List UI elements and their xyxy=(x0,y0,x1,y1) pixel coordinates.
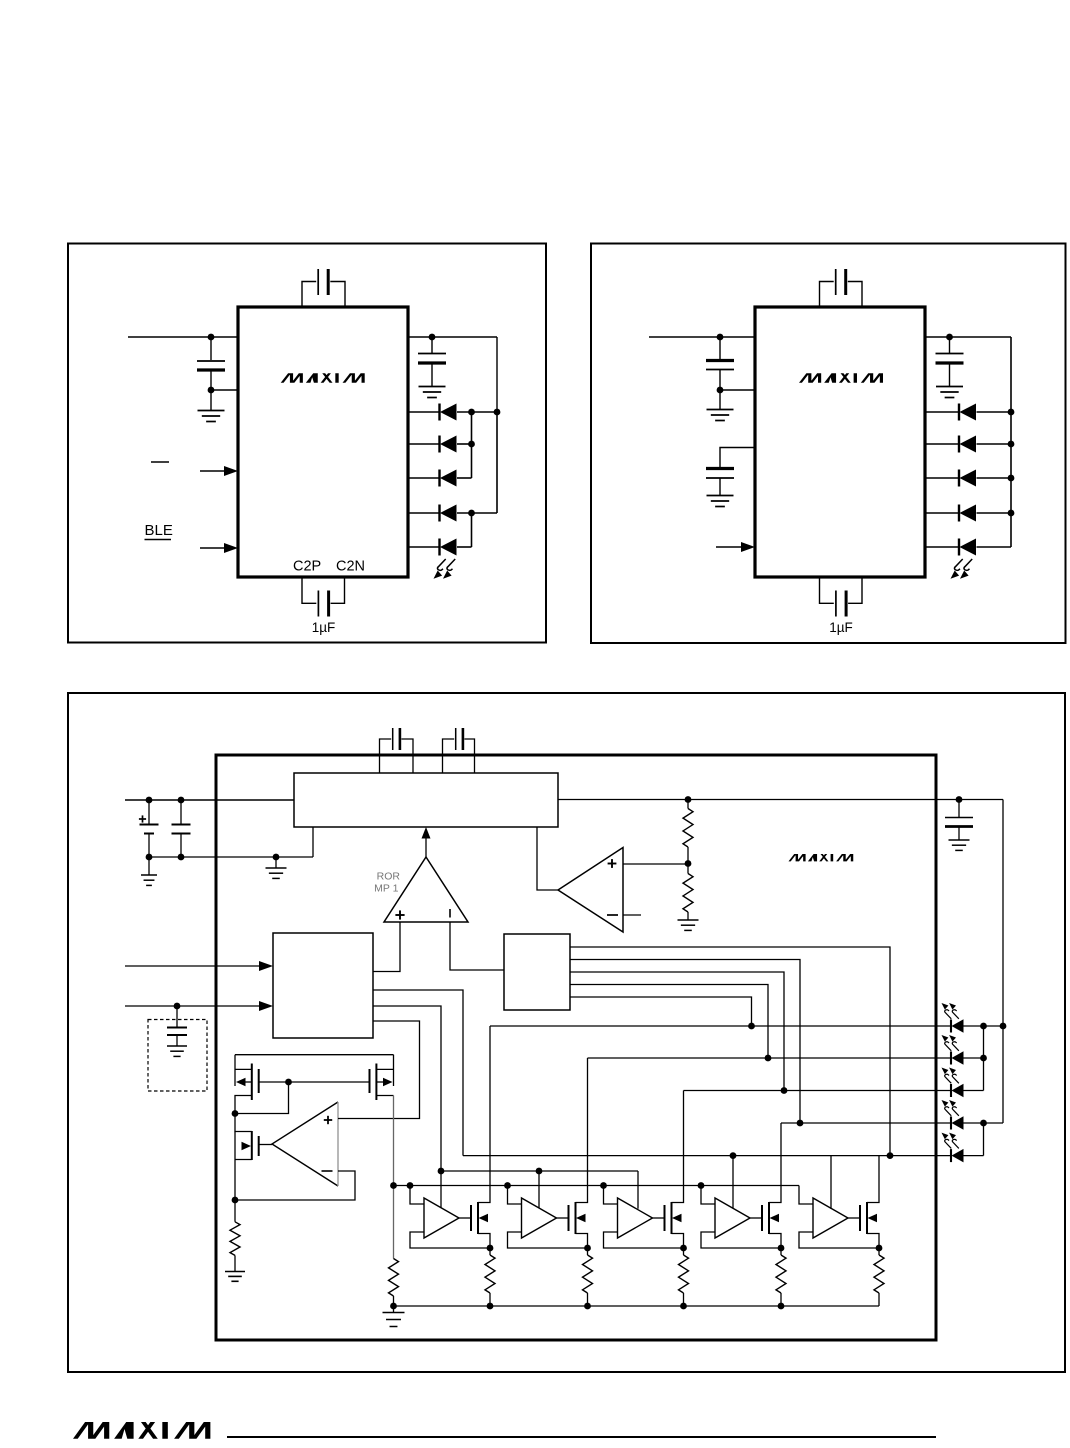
wire logic output to enable line (fig3) xyxy=(373,1006,441,1171)
node source junction cell 3 xyxy=(680,1245,687,1252)
LED D1 (fig1) xyxy=(408,411,440,413)
op-amp error amp 2 (fig3) xyxy=(272,1102,338,1186)
wire drain cell 1 xyxy=(478,1026,490,1203)
ground output cap (fig3) xyxy=(949,840,970,850)
ground input caps (fig3) xyxy=(148,857,150,875)
wire erroramp minus input to DAC (fig3) xyxy=(450,922,504,970)
node source junction cell 5 xyxy=(876,1245,883,1252)
wire source cell 2 xyxy=(576,1234,588,1249)
ground bypass cap (fig3) xyxy=(167,1046,187,1056)
wire IN rail (fig3) xyxy=(125,799,294,801)
LED D4 (fig1) xyxy=(408,512,440,514)
capacitor C8 output (fig2) xyxy=(949,337,951,353)
wire amp2 plus input from logic xyxy=(338,1021,420,1119)
wire LED parallel bus upper (fig1) xyxy=(471,412,473,478)
ground output cap (fig2) xyxy=(936,387,963,398)
node mirror drain junction xyxy=(232,1110,239,1117)
capacitor C4 1uF transfer cap (fig1) xyxy=(302,577,316,603)
wire enable input arrow (fig2) xyxy=(716,546,744,548)
node divider junction xyxy=(685,796,692,803)
transistor Q1 (mirror left) xyxy=(251,1064,253,1101)
node source junction cell 2 xyxy=(584,1245,591,1252)
LED D5 (fig1) xyxy=(408,546,440,548)
svg-text:C2P: C2P xyxy=(293,559,321,575)
wire drain cell 5 xyxy=(867,1156,879,1203)
LED D10 (fig2) xyxy=(925,546,959,548)
capacitor C7 ref bypass (fig2) xyxy=(720,448,755,469)
resistor R7 (cell 3) xyxy=(683,1248,685,1255)
LED D2 (fig1) xyxy=(408,443,440,445)
LED light emission arrows (fig1) xyxy=(434,559,446,579)
svg-text:BLE: BLE xyxy=(145,522,173,539)
dashed optional box (fig3) xyxy=(148,1020,207,1092)
transistor Q6 (cell 3) xyxy=(653,1217,665,1219)
LED D15 emission arrows xyxy=(942,1133,952,1149)
wire DAC output 2 (fig3) xyxy=(570,960,800,1124)
current mirror supply rail xyxy=(235,1054,394,1056)
plus input marker amp2 xyxy=(324,1119,332,1121)
buffer amp A4 (cell 4) xyxy=(698,1182,705,1189)
capacitor C12 polarized input (fig3) xyxy=(148,800,150,824)
wire charge pump gnd pin (fig3) xyxy=(312,827,314,857)
wire GND pin (fig2) xyxy=(720,389,755,391)
capacitor C9 1uF transfer cap (fig2) xyxy=(820,577,834,603)
comparator (fig3) xyxy=(558,848,623,933)
transistor Q4 (cell 1) xyxy=(459,1217,471,1219)
node feedback junction xyxy=(232,1197,239,1204)
LED D8 (fig2) xyxy=(925,477,959,479)
node IN junction (fig1) xyxy=(208,334,215,341)
ground divider xyxy=(678,920,699,930)
wire bias bus (fig3) xyxy=(394,1185,800,1187)
MAXIM logo U2 xyxy=(799,373,883,383)
IC U1 outline xyxy=(238,307,408,577)
wire feedback cell 5 xyxy=(799,1232,879,1248)
LED D9 (fig2) xyxy=(925,512,959,514)
overline of erased pin label (fig1) xyxy=(151,461,169,463)
plus input marker erroramp xyxy=(395,914,404,916)
wire drain cell 3 xyxy=(672,1091,684,1203)
LED D14 emission arrows xyxy=(942,1100,952,1116)
wire IN (fig2) xyxy=(649,336,755,338)
wire mirror gate bus xyxy=(259,1081,370,1083)
wire source cell 4 xyxy=(769,1234,781,1249)
ground bias resistor xyxy=(393,1306,395,1313)
minus input marker amp2 xyxy=(322,1170,333,1172)
wire enable line cells 1-3 (fig3) xyxy=(441,1170,638,1172)
IC U3 outline (functional diagram) xyxy=(216,755,936,1340)
wire comparator minus stub xyxy=(623,914,641,916)
figure 3: functional diagram box xyxy=(68,693,1065,1372)
transistor Q8 (cell 5) xyxy=(848,1217,860,1219)
minus input marker erroramp xyxy=(449,909,451,918)
transistor Q3 (sense) xyxy=(251,1131,253,1160)
node IN cap1 junction (fig3) xyxy=(146,797,153,804)
wire ground bus (fig3) xyxy=(394,1305,880,1307)
node source junction cell 4 xyxy=(778,1245,785,1252)
node source junction cell 1 xyxy=(487,1245,494,1252)
wire OUT rail (fig3) xyxy=(558,799,1003,801)
wire source cell 1 xyxy=(478,1234,490,1249)
capacitor C5 flying cap top (fig2) xyxy=(820,282,834,308)
resistor R1 divider top xyxy=(687,800,689,809)
node C2-ground junction (fig1) xyxy=(208,387,215,394)
wire OUT (fig1) xyxy=(408,336,497,338)
node output cap junction (fig3) xyxy=(956,796,963,803)
node LED4 anode junction xyxy=(984,1122,1004,1124)
wire error amp output arrow (fig3) xyxy=(425,837,427,857)
wire feedback cell 3 xyxy=(604,1232,684,1248)
resistor R4 sense xyxy=(234,1200,236,1222)
LED D12 (fig3) xyxy=(588,1057,952,1059)
footer rule xyxy=(227,1436,936,1438)
wire LED anode feed (fig3) xyxy=(1002,800,1004,1124)
capacitor C2 input bypass (fig1) xyxy=(210,337,212,360)
LED D11 emission arrows xyxy=(942,1003,952,1019)
resistor R9 (cell 5) xyxy=(878,1248,880,1255)
wire LED anode bus lower (fig3) xyxy=(983,1123,985,1156)
node IN junction (fig2) xyxy=(717,334,724,341)
capacitor C15 output (fig3) xyxy=(958,800,960,818)
wire input arrow 2 (fig3) xyxy=(125,1005,260,1007)
wire DAC output 4 (fig3) xyxy=(570,985,768,1059)
svg-text:ROR: ROR xyxy=(377,871,401,883)
buffer amp A1 (cell 1) xyxy=(407,1182,414,1189)
charge pump block xyxy=(294,773,558,827)
wire feedback cell 4 xyxy=(701,1232,781,1248)
wire LED anode bus upper (fig3) xyxy=(983,1026,985,1091)
transistor Q7 (cell 4) xyxy=(750,1217,762,1219)
LED D14 (fig3) xyxy=(781,1122,951,1124)
node resistor ground junction cell 2 xyxy=(584,1303,591,1310)
transistor Q2 (mirror right) xyxy=(375,1064,377,1101)
svg-text:C2N: C2N xyxy=(336,559,365,575)
wire feedback cell 2 xyxy=(508,1232,588,1248)
node resistor ground junction cell 3 xyxy=(680,1303,687,1310)
wire GND pin (fig1) xyxy=(211,389,238,391)
plus input marker comparator xyxy=(608,863,617,865)
resistor R6 (cell 2) xyxy=(587,1248,589,1255)
LED D12 emission arrows xyxy=(942,1035,952,1051)
resistor R3 bias xyxy=(389,1259,399,1297)
wire logic output to row5 line (fig3) xyxy=(373,990,463,1156)
wire OUT (fig2) xyxy=(925,336,1011,338)
LED D13 emission arrows xyxy=(942,1068,952,1084)
wire drain cell 2 xyxy=(576,1058,588,1203)
wire source cell 5 xyxy=(867,1234,879,1249)
figure 1: typical operating circuit box xyxy=(68,244,546,643)
svg-text:MP 1: MP 1 xyxy=(374,883,398,895)
wire Q1 drain xyxy=(235,1096,252,1114)
wire Q2 drain / bias line xyxy=(376,1095,393,1097)
wire Q1 diode tie xyxy=(235,1082,289,1114)
wire feedback cell 1 xyxy=(410,1232,490,1248)
capacitor C14 bypass in dashed box xyxy=(176,1006,178,1027)
capacitor C11 flying cap 2 (fig3) xyxy=(443,739,455,773)
capacitor C1 (flying cap top, fig1) xyxy=(302,282,316,308)
node IN cap2 junction (fig3) xyxy=(178,797,185,804)
wire amp2 output to Q3 gate xyxy=(259,1144,272,1146)
node bias resistor ground junction xyxy=(390,1303,397,1310)
wire source cell 3 xyxy=(672,1234,684,1249)
MAXIM logo U1 xyxy=(281,373,365,383)
svg-text:1µF: 1µF xyxy=(829,620,853,635)
resistor R2 divider bottom xyxy=(687,864,689,874)
wire input arrow 1 (fig3) xyxy=(125,965,260,967)
wire IN (fig1) xyxy=(128,336,238,338)
node resistor ground junction cell 4 xyxy=(778,1303,785,1310)
capacitor C3 output (fig1) xyxy=(431,337,433,353)
IC U2 outline xyxy=(755,307,925,577)
wire amp2 feedback loop xyxy=(235,1171,355,1200)
op-amp error amp (ROR MP 1) xyxy=(384,857,468,922)
node divider tap xyxy=(685,860,692,867)
node resistor ground junction cell 1 xyxy=(487,1303,494,1310)
buffer amp A3 (cell 3) xyxy=(600,1182,607,1189)
LED D7 (fig2) xyxy=(925,443,959,445)
DAC block xyxy=(504,934,570,1010)
LED D6 (fig2) xyxy=(925,411,959,413)
node bias bus junction xyxy=(390,1182,397,1189)
ground input cap (fig1) xyxy=(210,390,212,410)
LED D3 (fig1) xyxy=(408,477,440,479)
footer MAXIM logo xyxy=(73,1422,210,1439)
LED D11 (fig3) xyxy=(490,1025,951,1027)
wire ground return (fig3) xyxy=(149,856,313,858)
wire LED parallel bus col2 (fig1) xyxy=(496,412,498,513)
capacitor C6 input bypass (fig2) xyxy=(719,337,721,360)
wire drain cell 4 xyxy=(769,1123,781,1203)
resistor R5 (cell 1) xyxy=(489,1248,491,1255)
node LED2 anode junction xyxy=(980,1055,987,1062)
LED D15 (fig3) xyxy=(463,1155,951,1157)
LED light emission arrows (fig2) xyxy=(951,559,963,579)
node C6 ground junction (fig2) xyxy=(717,387,724,394)
wire EN input arrow (fig1) xyxy=(200,470,227,472)
wire OUT to LED bus (fig1) xyxy=(496,337,498,412)
LED D13 (fig3) xyxy=(684,1090,952,1092)
buffer amp A5 (cell 5) xyxy=(799,1186,813,1205)
wire LED anode bus (fig2) xyxy=(1010,337,1012,547)
node LED1 anode junctions (fig3) xyxy=(984,1025,1004,1027)
wire cells 4-5 top feeds (fig3) xyxy=(732,1156,734,1209)
ground output cap (fig1) xyxy=(419,387,446,398)
ground chip pin (fig3) xyxy=(275,857,277,868)
ground ref cap (fig2) xyxy=(707,496,734,507)
capacitor C10 flying cap 1 (fig3) xyxy=(380,739,392,773)
figure 2: typical operating circuit box 2 xyxy=(591,244,1066,644)
ground sense resistor xyxy=(225,1272,245,1282)
resistor R8 (cell 4) xyxy=(780,1248,782,1255)
wire DAC output 3 (fig3) xyxy=(570,972,784,1091)
wire DAC output 5 (fig3) xyxy=(570,997,752,1026)
wire DAC output 1 (fig3) xyxy=(570,947,890,1156)
MAXIM logo U3 xyxy=(789,854,854,861)
transistor Q5 (cell 2) xyxy=(557,1217,569,1219)
wire BLE input arrow (fig1) xyxy=(200,547,227,549)
buffer amp A2 (cell 2) xyxy=(504,1182,511,1189)
node bypass junction (fig3) xyxy=(174,1003,181,1010)
minus input marker comparator xyxy=(607,914,618,916)
control logic block xyxy=(273,933,373,1038)
capacitor C13 input (fig3) xyxy=(180,800,182,824)
wire comparator plus input xyxy=(623,863,688,865)
svg-text:1µF: 1µF xyxy=(312,620,336,635)
wire comparator output to charge pump xyxy=(537,827,558,890)
node OUT junction (fig2) xyxy=(946,334,953,341)
ground input cap (fig2) xyxy=(719,390,721,409)
wire LED parallel bus lower (fig1) xyxy=(471,513,473,547)
node OUT junction (fig1) xyxy=(429,334,436,341)
wire erroramp plus input (fig3) xyxy=(373,922,400,972)
